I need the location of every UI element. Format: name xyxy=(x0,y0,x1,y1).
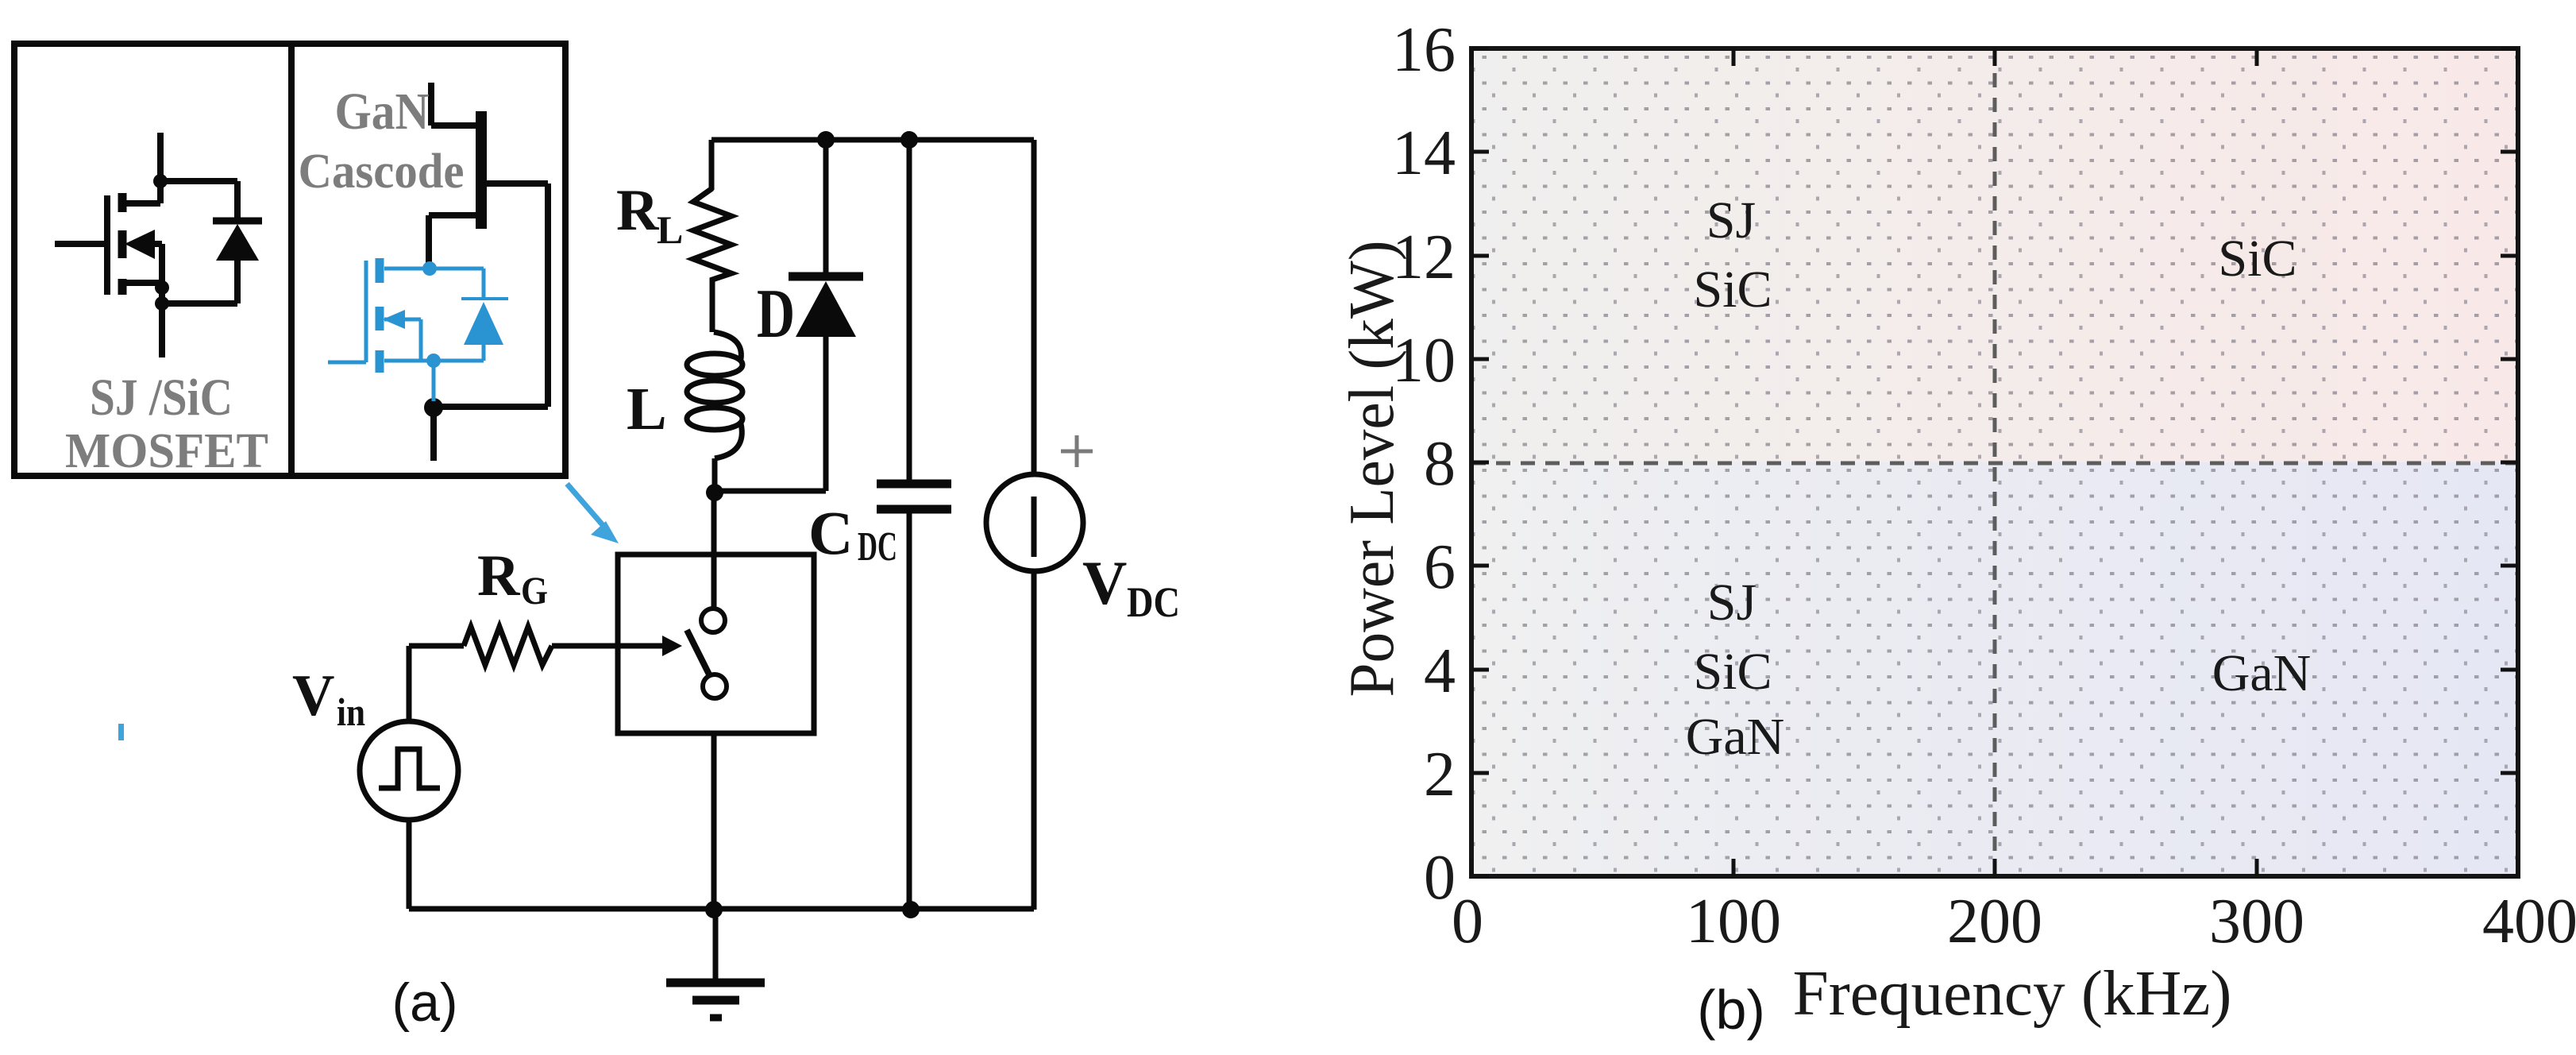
svg-text:DC: DC xyxy=(858,524,897,570)
svg-text:GaN: GaN xyxy=(335,83,430,141)
svg-text:300: 300 xyxy=(2209,887,2304,956)
svg-text:G: G xyxy=(521,568,548,613)
svg-text:DC: DC xyxy=(1127,578,1180,626)
svg-text:Power Level (kW): Power Level (kW) xyxy=(1337,241,1407,698)
svg-text:D: D xyxy=(757,276,795,353)
svg-text:L: L xyxy=(657,207,683,252)
svg-text:SJ: SJ xyxy=(1706,191,1756,249)
svg-text:SJ: SJ xyxy=(1707,574,1757,632)
svg-text:V: V xyxy=(1082,548,1127,617)
svg-text:Frequency (kHz): Frequency (kHz) xyxy=(1793,959,2232,1029)
svg-text:8: 8 xyxy=(1424,429,1456,499)
svg-text:R: R xyxy=(477,543,521,609)
svg-text:16: 16 xyxy=(1392,15,1456,85)
svg-text:0: 0 xyxy=(1424,843,1456,913)
svg-text:200: 200 xyxy=(1947,887,2042,956)
svg-text:MOSFET: MOSFET xyxy=(65,424,268,478)
svg-text:400: 400 xyxy=(2482,887,2576,956)
svg-text:14: 14 xyxy=(1392,118,1456,188)
svg-text:L: L xyxy=(627,376,667,442)
svg-text:Cascode: Cascode xyxy=(299,145,465,199)
svg-text:4: 4 xyxy=(1424,636,1456,706)
svg-text:2: 2 xyxy=(1424,740,1456,810)
svg-text:GaN: GaN xyxy=(2212,644,2312,702)
svg-text:(a): (a) xyxy=(391,972,457,1033)
svg-text:V: V xyxy=(292,663,334,728)
svg-text:in: in xyxy=(337,690,365,734)
svg-text:C: C xyxy=(808,498,853,567)
svg-text:100: 100 xyxy=(1686,887,1781,956)
svg-text:6: 6 xyxy=(1424,532,1456,602)
svg-text:SiC: SiC xyxy=(1693,261,1772,319)
svg-text:GaN: GaN xyxy=(1686,708,1785,766)
svg-text:0: 0 xyxy=(1452,887,1483,956)
svg-text:R: R xyxy=(616,178,660,243)
svg-text:SiC: SiC xyxy=(1693,643,1772,701)
svg-text:SJ /SiC: SJ /SiC xyxy=(90,369,233,427)
svg-text:(b): (b) xyxy=(1697,979,1765,1041)
svg-text:SiC: SiC xyxy=(2218,230,2296,288)
